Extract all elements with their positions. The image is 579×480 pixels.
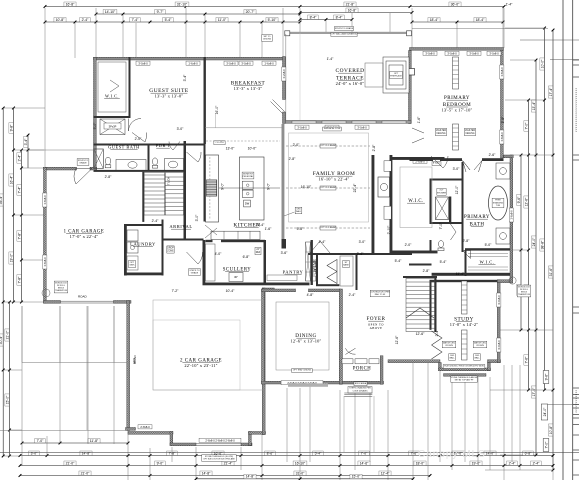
- dim top row3: [163, 18, 173, 22]
- svg-text:2'-8x8-0 2'-8x8-0 2'-8x8-0: 2'-8x8-0 2'-8x8-0 2'-8x8-0: [205, 439, 235, 443]
- kitchen range: [206, 180, 217, 196]
- window label top wall: [239, 61, 253, 65]
- svg-text:31'-0": 31'-0": [296, 471, 305, 475]
- svg-text:11'-8": 11'-8": [90, 439, 99, 443]
- svg-text:3'-0x8-0: 3'-0x8-0: [497, 340, 501, 350]
- exterior wall garage2 front seg3: [241, 443, 252, 446]
- dim bottom row2: [358, 461, 370, 465]
- dim bottom row3: [19, 474, 22, 477]
- primary tub note: [492, 198, 504, 208]
- svg-text:3'-0x8-0: 3'-0x8-0: [497, 295, 501, 305]
- dim bottom row2: [507, 461, 517, 465]
- dim bottom row3: [20, 475, 430, 477]
- exterior wall dining top: [262, 289, 341, 292]
- svg-text:OPT CLG BEAM: OPT CLG BEAM: [321, 186, 336, 189]
- svg-text:7'-0": 7'-0": [361, 451, 369, 455]
- dim bottom row3: [149, 474, 152, 477]
- svg-text:7'-0": 7'-0": [37, 439, 45, 443]
- wall wic2 top: [465, 248, 510, 250]
- wall bath wc: [430, 240, 432, 253]
- svg-text:2'-4": 2'-4": [533, 461, 541, 465]
- front walk left: [343, 396, 345, 452]
- tuck closet: [165, 173, 184, 216]
- svg-text:11'-0" x 14'-2": 11'-0" x 14'-2": [450, 322, 479, 327]
- svg-text:17'-0" x 22'-4": 17'-0" x 22'-4": [70, 234, 99, 239]
- svg-text:9'-8": 9'-8": [9, 124, 13, 132]
- primary vanity top: [496, 163, 510, 179]
- exterior wall study ne corner: [497, 280, 510, 283]
- dim top row3 mid: [308, 15, 318, 19]
- driveway line v: [113, 306, 115, 363]
- svg-text:12'-4": 12'-4": [381, 471, 390, 475]
- dim bottom garage row: [35, 439, 45, 443]
- dim right col2: [524, 196, 528, 208]
- svg-text:CROWN: CROWN: [476, 345, 484, 347]
- sheet edge box line: [573, 474, 579, 476]
- svg-text:CEILING: CEILING: [465, 133, 474, 135]
- wic bath door zigzag: [451, 224, 457, 240]
- exterior wall terrace right v: [409, 51, 412, 124]
- svg-text:3'-0x8-0: 3'-0x8-0: [297, 125, 307, 129]
- dim top row2 right: [300, 12, 412, 14]
- laundry counter: [127, 256, 138, 270]
- bottom dim extension: [552, 470, 554, 480]
- dim top row2: [204, 13, 207, 16]
- svg-text:3'-0x8-0: 3'-0x8-0: [489, 52, 499, 56]
- svg-text:5'-4": 5'-4": [440, 260, 448, 264]
- dim right col4: [540, 58, 544, 70]
- wall guest suite bottom: [94, 144, 206, 146]
- bottom dim extension: [387, 390, 389, 480]
- dim top row3 right: [502, 21, 505, 24]
- terrace sliding door panel: [352, 121, 376, 123]
- dim top row2: [155, 10, 165, 14]
- svg-text:3'-0x8-0: 3'-0x8-0: [138, 61, 148, 65]
- exterior wall guest suite top: [94, 57, 286, 60]
- wall stair west: [142, 172, 144, 222]
- svg-text:3'-6": 3'-6": [281, 251, 289, 255]
- arrival door arc: [187, 252, 203, 264]
- svg-text:2'-4": 2'-4": [319, 240, 327, 244]
- butler counter: [340, 256, 353, 286]
- wall primary bath west: [462, 162, 464, 252]
- dim right col2: [524, 285, 528, 295]
- svg-text:9'-0": 9'-0": [157, 461, 165, 465]
- svg-text:WALL: WALL: [296, 210, 302, 213]
- svg-text:TRANSITION: TRANSITION: [518, 293, 531, 296]
- dim bottom row3: [79, 471, 91, 475]
- garage2 ceiling rect2: [153, 320, 240, 390]
- dim right col4: [544, 28, 546, 390]
- svg-text:22'-4": 22'-4": [353, 183, 357, 192]
- kitchen passage arcs: [205, 225, 217, 238]
- bottom dim extension: [369, 390, 371, 462]
- svg-text:7'-4": 7'-4": [17, 186, 21, 194]
- svg-text:36'-0": 36'-0": [451, 2, 460, 6]
- sheet border line2: [572, 0, 574, 480]
- terrace left edge: [285, 34, 287, 120]
- sheet edge box line: [573, 154, 579, 156]
- svg-text:WALL: WALL: [474, 357, 480, 360]
- svg-text:17'-0": 17'-0": [532, 387, 536, 396]
- exterior wall study right: [497, 280, 500, 363]
- sheet edge box line: [573, 407, 579, 409]
- dim left col2: [9, 174, 13, 186]
- right dim extension: [500, 329, 553, 331]
- dim left col2: [9, 252, 13, 264]
- window label garage1 left b: [43, 255, 47, 269]
- left dim extension: [3, 301, 44, 303]
- family beam note b: [320, 186, 336, 190]
- dim bottom row2: [339, 464, 342, 467]
- dim top row3 right: [428, 18, 440, 22]
- right dim extension: [505, 99, 545, 101]
- svg-text:3'-0": 3'-0": [359, 240, 367, 244]
- svg-text:24'-0" x 16'-0": 24'-0" x 16'-0": [336, 81, 365, 86]
- wall stair east: [435, 276, 437, 332]
- svg-text:GRADE: GRADE: [191, 272, 199, 275]
- top dim extension: [282, 8, 284, 58]
- svg-text:19'-6": 19'-6": [472, 461, 481, 465]
- dim left col2: [12, 214, 15, 217]
- steps grade note 3: [334, 26, 353, 30]
- svg-text:TRANSITION: TRANSITION: [55, 289, 68, 292]
- svg-text:STANDING: STANDING: [493, 201, 504, 204]
- wic2 corner door: [463, 251, 471, 259]
- primary vaulted note b: [464, 128, 475, 135]
- steps grade note 2: [189, 269, 201, 276]
- dim bottom row1: [29, 451, 39, 455]
- dim left col5: [23, 137, 27, 147]
- bottom dim extension: [240, 447, 242, 470]
- wall guest wic bottom: [94, 116, 131, 118]
- kitchen breakfast break line: [205, 127, 283, 129]
- guest wic shelves: [98, 62, 126, 112]
- sheet edge box line: [573, 404, 579, 406]
- dim left col5: [27, 134, 30, 137]
- svg-text:MATCH CEIL: MATCH CEIL: [474, 341, 487, 344]
- pdr door arc: [169, 142, 180, 151]
- top dim extension: [185, 8, 187, 58]
- dim bottom row1: [452, 451, 464, 455]
- svg-text:1'-6x8-0: 1'-6x8-0: [500, 67, 504, 77]
- svg-text:W.I.C.: W.I.C.: [105, 94, 119, 99]
- svg-text:MATCH CEIL: MATCH CEIL: [443, 341, 456, 344]
- svg-text:2'-4": 2'-4": [509, 461, 517, 465]
- dim top row3 right: [474, 18, 486, 22]
- dim left col2: [12, 149, 15, 152]
- primary vaulted note a: [435, 128, 446, 135]
- svg-text:BASE: BASE: [343, 264, 349, 267]
- svg-text:18'-4": 18'-4": [476, 18, 485, 22]
- svg-text:14'-6": 14'-6": [360, 461, 369, 465]
- svg-text:21'-8": 21'-8": [346, 2, 355, 6]
- dim bottom garage row: [21, 442, 24, 445]
- exterior wall primary bedroom top: [410, 48, 504, 51]
- dim bottom row1: [149, 454, 152, 457]
- wall bath mid h: [430, 179, 462, 181]
- dim left col4: [20, 214, 23, 217]
- right dim extension: [513, 154, 553, 156]
- bay flat ceiling note: [443, 365, 485, 369]
- bottom dim extension: [354, 390, 356, 470]
- breakfast corner window: [271, 100, 285, 114]
- top dim extension: [351, 13, 353, 33]
- svg-text:2'-8x8-0: 2'-8x8-0: [140, 425, 150, 429]
- svg-text:STEPS TO: STEPS TO: [78, 160, 89, 162]
- family beam note c: [320, 226, 336, 230]
- exterior wall garage2 front left corner h: [126, 428, 136, 431]
- top dim extension: [239, 23, 241, 58]
- svg-text:31'-10": 31'-10": [177, 2, 188, 6]
- dim bottom row2: [155, 461, 165, 465]
- family foyer opening: [310, 241, 330, 253]
- garage2 door opening: [196, 443, 241, 445]
- family beam dashed: [286, 187, 370, 189]
- dim left col4: [20, 167, 23, 170]
- window label primary top: [445, 51, 459, 55]
- svg-text:GUEST BATH: GUEST BATH: [108, 145, 140, 150]
- svg-text:1'-6x8-0: 1'-6x8-0: [188, 61, 198, 65]
- top dim extension: [95, 8, 97, 57]
- dim right col1: [520, 154, 523, 157]
- right dim extension: [500, 454, 536, 456]
- bottom dim extension: [412, 363, 414, 480]
- wall guest bath bottom: [94, 170, 186, 172]
- svg-text:24'-0": 24'-0": [532, 237, 536, 246]
- svg-text:12'-6": 12'-6": [416, 332, 425, 336]
- kitchen appliances: [242, 181, 253, 189]
- dim bottom row1: [439, 454, 442, 457]
- svg-text:DW: DW: [245, 202, 250, 206]
- svg-text:FREE: FREE: [495, 200, 501, 202]
- svg-text:14'-0": 14'-0": [486, 451, 495, 455]
- dim bottom row2: [19, 464, 22, 467]
- svg-text:SHOWER: SHOWER: [437, 192, 447, 194]
- svg-text:SET AT TOP ABV FF: SET AT TOP ABV FF: [455, 379, 474, 382]
- svg-text:LAUNDRY: LAUNDRY: [130, 242, 156, 247]
- svg-text:CEILING: CEILING: [436, 133, 445, 135]
- dim left col3: [8, 429, 11, 432]
- right dim extension: [505, 27, 545, 29]
- dim bottom row2: [414, 461, 426, 465]
- left dim extension: [14, 149, 45, 151]
- boxed dim right a: [543, 371, 549, 384]
- sheet border line: [562, 0, 564, 480]
- wall foyer north: [308, 253, 412, 255]
- svg-text:17'-4": 17'-4": [549, 87, 553, 96]
- wall laundry top: [124, 224, 164, 226]
- terrace fireplace note: [390, 72, 403, 79]
- svg-text:2'-4": 2'-4": [349, 293, 357, 297]
- pdr toilet: [152, 158, 157, 165]
- svg-text:CROWN: CROWN: [445, 345, 453, 347]
- svg-text:3'-8": 3'-8": [501, 116, 505, 124]
- dim right col1: [520, 329, 523, 332]
- dim left col1: [2, 107, 5, 110]
- svg-text:ABOVE: ABOVE: [370, 326, 383, 330]
- svg-text:PDR 1: PDR 1: [156, 143, 170, 148]
- sheet edge box line: [573, 449, 579, 451]
- study niche top: [462, 281, 468, 314]
- dim left col4: [21, 150, 23, 302]
- svg-text:1'-6x8-0: 1'-6x8-0: [510, 210, 514, 220]
- svg-text:Canopy MLS: Canopy MLS: [418, 449, 486, 460]
- svg-text:3'-0": 3'-0": [453, 167, 461, 171]
- dim bottom garage row: [59, 442, 62, 445]
- svg-text:1'-6": 1'-6": [417, 116, 421, 124]
- top dim extension: [503, 8, 505, 48]
- dim bottom row1: [552, 454, 555, 457]
- wall study west: [430, 280, 432, 330]
- sheet edge box line: [573, 76, 579, 78]
- top dim extension: [389, 13, 391, 33]
- main stairs treads: [406, 281, 435, 283]
- svg-text:6'-8": 6'-8": [243, 255, 251, 259]
- bath b wall note: [432, 162, 441, 166]
- sheet edge box line: [573, 64, 579, 66]
- dim bottom row1: [195, 454, 198, 457]
- dim right col5: [548, 266, 552, 278]
- garage2 door opening2: [196, 445, 241, 447]
- dim right col2: [524, 121, 528, 131]
- svg-text:36'-4": 36'-4": [0, 195, 3, 204]
- svg-text:2'-0": 2'-0": [405, 243, 413, 247]
- svg-text:1'-2x8-0: 1'-2x8-0: [282, 69, 286, 79]
- steps grade note 1: [77, 159, 89, 166]
- dim right col5: [552, 469, 555, 472]
- svg-text:5'-4": 5'-4": [395, 259, 403, 263]
- garage1 door opening2: [61, 302, 115, 304]
- family tray rect: [289, 133, 369, 222]
- svg-text:STEPS 4 RAILING PER: STEPS 4 RAILING PER: [349, 387, 371, 390]
- porch top boxes: [342, 359, 353, 364]
- svg-text:OPT: OPT: [130, 262, 135, 264]
- dim right col5: [552, 389, 555, 392]
- dining tray note: [292, 369, 313, 373]
- scullery box: [229, 273, 243, 282]
- top dim extension: [74, 23, 76, 58]
- family chd wall note: [295, 207, 302, 214]
- guest bench xbox: [100, 119, 125, 135]
- dim bottom row1: [299, 454, 302, 457]
- driveway border left: [21, 306, 23, 430]
- svg-text:3'-0x8-0: 3'-0x8-0: [226, 61, 236, 65]
- svg-text:14'-10": 14'-10": [105, 10, 116, 14]
- dim bottom row1: [477, 454, 480, 457]
- dim right col1: [516, 285, 520, 295]
- wall pdr right: [184, 141, 187, 172]
- svg-text:18'-0": 18'-0": [416, 461, 425, 465]
- dim left col5: [27, 149, 30, 152]
- terrace top screen wall: [286, 32, 410, 34]
- dim top row3 right: [412, 21, 503, 23]
- driveway bottom: [0, 430, 126, 432]
- svg-text:3'-4": 3'-4": [183, 74, 187, 82]
- dim right col3: [535, 60, 537, 455]
- dim left col2: [12, 301, 15, 304]
- primary bed dresser niche upper: [453, 57, 459, 89]
- dim bottom row4 stub: [299, 477, 302, 480]
- dim right col5: [548, 424, 552, 436]
- svg-text:2'-0": 2'-0": [293, 143, 301, 147]
- svg-text:5'-4": 5'-4": [165, 18, 173, 22]
- svg-text:SHIPLAP AL COVE: SHIPLAP AL COVE: [324, 127, 341, 130]
- kitchen break vline: [215, 113, 217, 128]
- svg-text:W.I.C.: W.I.C.: [480, 260, 495, 265]
- bottom dim extension: [439, 371, 441, 462]
- dim top row1 right: [344, 2, 356, 6]
- dim bottom row1: [523, 451, 533, 455]
- exterior wall garage2 front step1 v: [170, 432, 173, 446]
- bottom dim extension: [489, 377, 491, 470]
- guest bath toilet: [105, 157, 111, 165]
- exterior wall garage2 front seg4: [249, 432, 266, 435]
- window label family doors c: [355, 125, 369, 129]
- exterior wall bay right v: [488, 363, 491, 371]
- exterior wall scullery south corner: [262, 288, 274, 291]
- wic media cabinets: [384, 161, 391, 172]
- dim left col4: [17, 275, 21, 285]
- dim top row3: [45, 21, 300, 23]
- wall wic2 south: [432, 273, 510, 276]
- svg-text:7'-8": 7'-8": [169, 451, 177, 455]
- svg-text:2'-8": 2'-8": [372, 144, 376, 152]
- exterior wall porch left: [340, 356, 343, 385]
- dim left col5: [27, 135, 29, 168]
- monolock leader 1: [42, 289, 50, 297]
- sheet cross line b: [550, 59, 579, 61]
- svg-text:STEPS TO GRADE: STEPS TO GRADE: [335, 27, 354, 30]
- dim bottom row1: [359, 451, 369, 455]
- svg-text:15'-0": 15'-0": [352, 475, 361, 479]
- dim bottom row3: [429, 474, 432, 477]
- bottom dim extension: [451, 377, 453, 470]
- window label study right a: [497, 293, 501, 307]
- svg-text:1'-4": 1'-4": [506, 2, 514, 6]
- exterior wall wic2 right: [510, 155, 513, 283]
- dim top row2: [244, 10, 256, 14]
- svg-text:1'-4": 1'-4": [327, 57, 335, 61]
- window label primary top: [423, 51, 437, 55]
- back stairs treads: [144, 174, 165, 176]
- dim left col3: [8, 301, 11, 304]
- scullery fridge note: [255, 247, 261, 254]
- wall bath mid h2: [430, 222, 462, 224]
- dim bottom row2: [195, 464, 198, 467]
- svg-text:VAULTED: VAULTED: [436, 129, 447, 132]
- dim top row2: [299, 13, 302, 16]
- garage threshold note: [202, 455, 236, 462]
- window label breakfast right: [282, 67, 286, 81]
- left dim extension: [3, 107, 45, 109]
- dim right col5: [552, 154, 555, 157]
- main stairs box: [406, 279, 435, 332]
- exterior wall porch bottom: [340, 381, 384, 384]
- svg-text:3'-0x8-0: 3'-0x8-0: [241, 61, 251, 65]
- dim right col4: [543, 389, 546, 392]
- driveway line v low: [86, 363, 88, 431]
- porch steps treads: [344, 393, 372, 396]
- back stairs box: [144, 173, 165, 216]
- svg-text:10'-4": 10'-4": [226, 289, 235, 293]
- wall scullery left: [203, 240, 206, 285]
- dim right col3: [535, 154, 538, 157]
- family chd leader: [284, 212, 295, 216]
- dim top row2: [122, 13, 125, 16]
- dim right col5: [548, 86, 552, 98]
- butler note: [343, 261, 350, 268]
